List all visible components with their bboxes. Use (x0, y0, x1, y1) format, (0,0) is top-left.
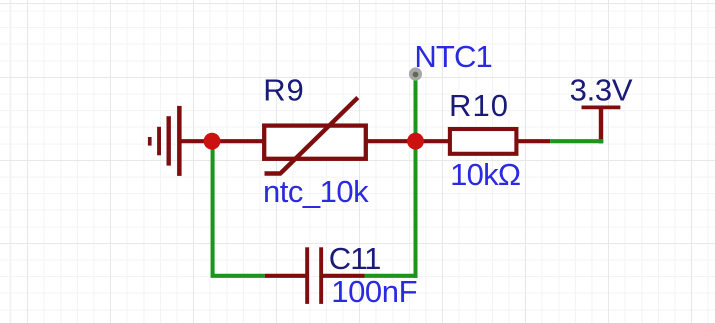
capacitor C11 (305, 247, 323, 304)
pin NTC1 (409, 67, 422, 80)
svg-text:3.3V: 3.3V (570, 72, 633, 107)
wire node B to R10 (416, 139, 451, 143)
svg-text:R9: R9 (263, 72, 304, 107)
wire C11 right lead (322, 274, 365, 278)
wire bottom rail green left segment (211, 274, 265, 278)
wire NTC1 riser (pin to node B) (414, 74, 418, 141)
svg-text:R10: R10 (449, 88, 508, 123)
wire green to 3.3V (550, 139, 603, 143)
wire ground to node A (179, 139, 212, 143)
junction node A (204, 133, 221, 150)
thermistor R9 (264, 98, 366, 174)
svg-text:NTC1: NTC1 (414, 39, 492, 74)
wire node B down to bottom rail (414, 141, 418, 278)
svg-text:ntc_10k: ntc_10k (263, 174, 369, 209)
wire R10 right lead (516, 139, 550, 143)
wire R9 to node B (364, 139, 416, 143)
junction node B (407, 133, 424, 150)
ground (148, 106, 182, 176)
wire node A to R9 (212, 139, 264, 143)
svg-text:100nF: 100nF (331, 274, 417, 309)
wire C11 left lead (265, 274, 306, 278)
resistor R10 (450, 129, 517, 154)
wire node A down to bottom rail (211, 141, 215, 276)
svg-text:10kΩ: 10kΩ (450, 157, 521, 192)
wire bottom rail green right segment (365, 274, 418, 278)
power symbol 3.3V (582, 107, 621, 143)
svg-text:C11: C11 (329, 241, 382, 276)
